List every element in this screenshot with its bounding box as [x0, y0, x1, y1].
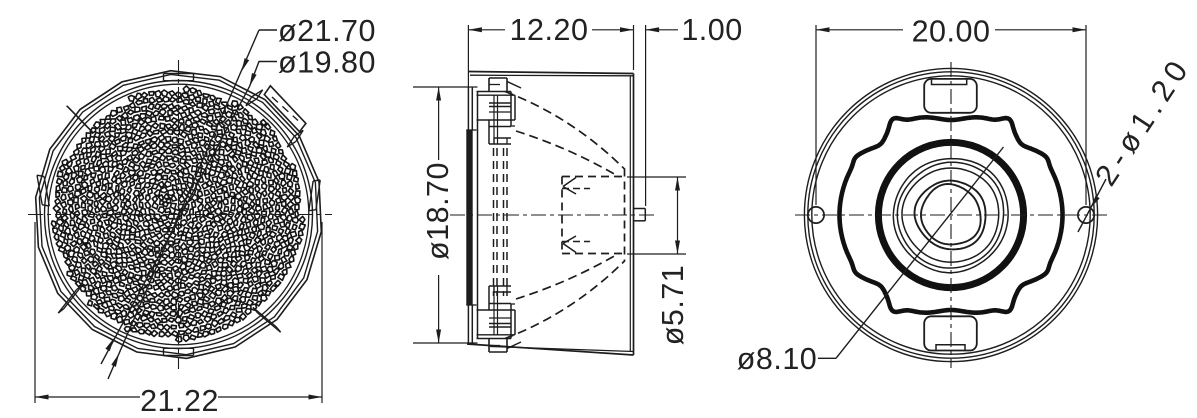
dimension 1.00 — [645, 25, 647, 206]
svg-text:ø5.71: ø5.71 — [656, 265, 690, 346]
left view: protruding clip tab at 1:30 — [264, 86, 306, 132]
left view: honeycomb lens texture — [51, 86, 305, 342]
left view: rim tabs — [163, 74, 165, 81]
dimension ø5.71 — [627, 176, 686, 178]
right view: centerlines — [795, 214, 1107, 216]
dimension 20.00 — [815, 25, 817, 205]
right view: lens seat circles — [893, 159, 1008, 273]
right view: boss thick circle — [878, 142, 1023, 287]
svg-text:20.00: 20.00 — [912, 15, 991, 49]
right view: 2x ø1.20 holes — [808, 207, 824, 223]
right view: bottom mounting tab — [924, 316, 977, 350]
middle view: side section body outline — [468, 72, 633, 74]
svg-text:21.22: 21.22 — [140, 384, 219, 418]
dimension ø18.70 — [413, 86, 478, 88]
dimension 21.22 — [34, 222, 36, 403]
dimension leader ø21.70 — [108, 30, 259, 379]
middle view: centerline — [450, 214, 658, 216]
middle view: bottom flange clip detail — [488, 339, 490, 353]
svg-text:ø8.10: ø8.10 — [737, 342, 818, 376]
right view: center hole ø8.10 inner circles — [915, 181, 986, 250]
right view: top mounting tab — [924, 79, 977, 113]
middle view: hidden edge dashed verticals — [493, 148, 495, 296]
svg-text:1.00: 1.00 — [681, 13, 742, 47]
dimension leader ø8.10 — [818, 357, 836, 359]
right view: wavy cam ring — [840, 117, 1063, 312]
dimension leader 2-ø1.20 — [1078, 179, 1106, 232]
svg-text:ø21.70: ø21.70 — [278, 14, 376, 48]
svg-text:ø18.70: ø18.70 — [421, 162, 455, 260]
right view: outer rim circles — [804, 68, 1097, 361]
middle view: hidden inner bore (dashed box) — [624, 169, 626, 262]
dimension leader ø19.80 — [101, 62, 277, 365]
middle view: center nub — [634, 208, 646, 210]
svg-text:12.20: 12.20 — [510, 13, 589, 47]
dimension 12.20 — [467, 25, 469, 88]
middle view: left flange edge — [467, 88, 469, 131]
left view: centerlines — [28, 214, 332, 216]
middle view: hidden lens cone (dashed) — [505, 92, 625, 170]
left view: inner retaining ring (double) — [45, 81, 313, 349]
left view: outer faceted rim — [36, 71, 322, 359]
middle view: top flange clip detail — [488, 78, 490, 92]
svg-text:ø19.80: ø19.80 — [278, 46, 376, 80]
